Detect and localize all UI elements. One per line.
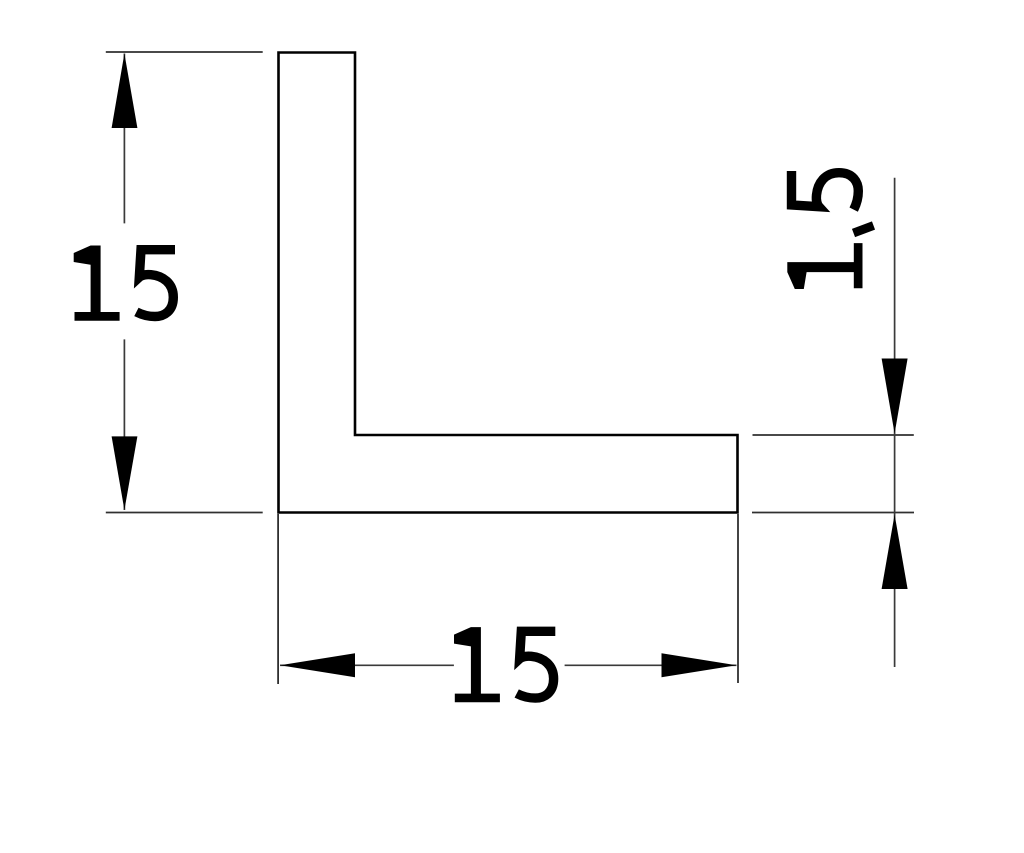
arrowhead left [280, 653, 355, 677]
dimension line 1,5 vertical [894, 178, 896, 667]
dimension text 15 bottom [454, 627, 555, 702]
L-profile outline [279, 53, 738, 513]
dimension line 15 horizontal left segment [280, 664, 454, 666]
dimension line 15 vertical lower segment [123, 339, 125, 510]
arrowhead up [112, 54, 138, 129]
arrowhead right [662, 653, 737, 677]
extension line bottom-left vertical [277, 514, 279, 684]
dimension text 1,5 rotated [787, 171, 873, 289]
extension line right lower [752, 512, 914, 514]
arrowhead up to lower extension [882, 515, 908, 590]
extension line right upper [753, 434, 914, 436]
arrowhead down [112, 436, 138, 510]
extension line bottom left [106, 512, 263, 514]
dimension text 15 left [74, 246, 175, 321]
dimension line 15 vertical upper segment [123, 54, 125, 224]
extension line top left [106, 51, 263, 53]
extension line bottom-right vertical [737, 514, 739, 683]
arrowhead down to upper extension [882, 359, 908, 434]
dimension line 15 horizontal right segment [565, 664, 737, 666]
